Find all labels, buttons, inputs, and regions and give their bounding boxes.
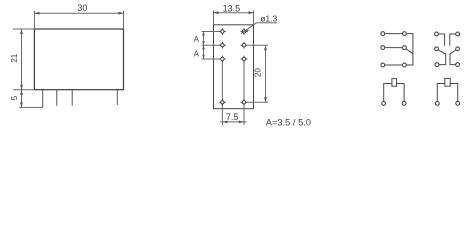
coil K1 body	[392, 79, 397, 87]
terminal NC-b right	[456, 32, 460, 36]
svg-text:ø1.3: ø1.3	[260, 13, 277, 23]
terminal NO-a right	[403, 63, 407, 67]
wire from top-left terminal	[438, 34, 444, 46]
dimension A (x2): extension lines	[202, 31, 220, 33]
terminal COM-b right	[456, 47, 460, 51]
svg-text:13.5: 13.5	[223, 3, 241, 13]
svg-text:21: 21	[10, 53, 19, 62]
coil K1 terminal left	[382, 102, 386, 106]
terminal NC-a left	[381, 32, 385, 36]
dimension 13.5: extension lines	[213, 11, 215, 25]
coil K2 body	[445, 78, 450, 86]
terminal COM-b left	[435, 47, 439, 51]
terminal NO-a left	[381, 63, 385, 67]
terminal NC-b left	[435, 32, 439, 36]
terminal COM-a right	[403, 46, 407, 50]
movable arm left	[438, 50, 446, 54]
wire from bottom-right terminal	[450, 53, 456, 64]
wire coil K1 right	[397, 84, 405, 102]
dimension 30: dim line with arrows	[34, 12, 123, 14]
dimension 30: extension lines	[33, 11, 35, 29]
dimension 7.5: dim line with arrows	[220, 121, 247, 123]
pin 2	[56, 90, 58, 106]
terminal COM-a left	[381, 46, 385, 50]
terminal NC-a right	[403, 32, 407, 36]
dimension 21: extension lines	[13, 28, 34, 30]
wire row 1	[385, 33, 403, 35]
hole r3c1	[219, 56, 226, 63]
wire from top-right terminal	[450, 34, 456, 46]
dimension A: dim line with arrows	[203, 32, 205, 60]
terminal NO-b left	[435, 63, 439, 67]
hole r1c1	[219, 28, 226, 35]
hole r4c1	[219, 99, 226, 106]
dimension 5: extension line	[19, 106, 43, 108]
svg-text:A: A	[194, 35, 200, 44]
coil K1 terminal right	[402, 102, 406, 106]
hole r2c2	[241, 42, 248, 49]
pin 3	[71, 90, 73, 106]
leader line to hole r1c2	[241, 23, 277, 34]
svg-text:A=3.5 / 5.0: A=3.5 / 5.0	[266, 118, 311, 128]
wire row 2	[385, 47, 403, 49]
dimension 20: extension lines	[248, 44, 269, 46]
svg-text:A: A	[194, 49, 200, 58]
right rail connecting rows 1 and 3	[406, 34, 413, 65]
dimension 5: dim line with arrows	[21, 90, 23, 108]
wire from bottom-left terminal	[439, 53, 446, 64]
wire coil K2 left	[437, 84, 445, 102]
relay body outline	[34, 29, 123, 90]
hole r4c2	[241, 99, 248, 106]
coil K2 terminal right	[456, 102, 460, 106]
pin 1	[42, 90, 44, 108]
svg-text:7.5: 7.5	[226, 112, 239, 122]
hole r1c2	[241, 28, 248, 35]
dimension 21: dim line with arrows	[21, 29, 23, 90]
movable arm right	[449, 50, 456, 54]
wire column right (row3 hole to 7.5 ext)	[243, 61, 245, 126]
wire row 3	[385, 64, 403, 66]
coil K2 terminal left	[435, 102, 439, 106]
hole r3c2	[241, 56, 248, 63]
terminal NO-b right	[456, 63, 460, 67]
hole r2c1	[219, 42, 226, 49]
pcb outline	[214, 25, 254, 109]
dimension 13.5: dim line with arrows	[214, 12, 254, 14]
dimension 20: dim line with arrows	[265, 45, 267, 102]
svg-text:30: 30	[77, 3, 87, 13]
wire coil K2 right	[450, 84, 458, 102]
svg-text:5: 5	[10, 95, 19, 100]
wire column left (row3 hole to 7.5 ext)	[221, 61, 223, 126]
pin 4	[116, 90, 118, 105]
svg-text:20: 20	[254, 68, 263, 77]
wire coil K1 left	[384, 84, 392, 102]
movable arm row 2	[406, 49, 413, 54]
